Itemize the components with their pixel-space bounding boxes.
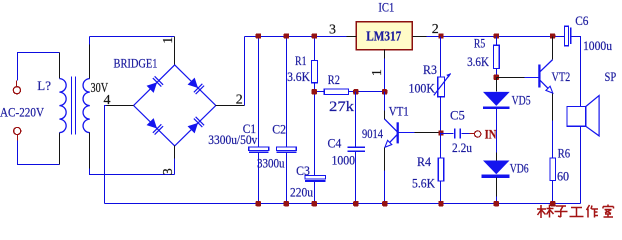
resistor R6 body [550,158,556,181]
svg-text:2: 2 [236,92,243,107]
transistor VT1 symbol [385,119,398,147]
svg-text:R6: R6 [558,145,571,160]
transformer core [72,77,76,135]
resistor R2 left lead [314,91,325,93]
watermark 作 [587,205,599,218]
transistor VT1 collector pin [384,111,386,120]
speaker SP [567,96,599,136]
capacitor C5 plates [455,128,461,138]
svg-text:BRIDGE1: BRIDGE1 [114,56,158,71]
bridge pin 1 [174,37,176,65]
wire ADJ down [384,59,386,92]
svg-text:C5: C5 [450,108,465,123]
diode VD5 top pin [496,78,498,92]
svg-text:R1: R1 [295,53,307,68]
svg-text:100K: 100K [409,81,436,96]
diode bridge top-left [146,76,163,93]
wire C6 to speaker [572,37,581,91]
IC1 pin 3 [347,36,357,38]
svg-text:VT1: VT1 [389,104,409,119]
watermark 工 [570,208,584,217]
capacitor C2 bottom lead [286,153,288,204]
diode bridge bottom-right [187,117,204,134]
node ground R6 [550,201,555,206]
svg-text:3.6K: 3.6K [287,69,310,84]
capacitor C3 plates [305,176,325,182]
resistor R1 top lead [314,37,316,61]
svg-text:1: 1 [161,37,176,44]
terminal AC top [13,87,20,94]
diode bridge top-right [187,77,204,94]
svg-text:3300u: 3300u [257,156,285,171]
IC1 pin 2 [413,36,427,38]
svg-text:3300u/50v: 3300u/50v [208,132,257,147]
node top rail C1 [256,33,261,38]
diode bridge bottom-left [146,117,163,134]
capacitor C4 bottom lead [355,152,357,204]
transistor VT1 emitter pin [384,148,386,171]
transistor VT2 emitter pin [552,94,554,121]
watermark 子 [555,206,568,217]
svg-text:VD5: VD5 [512,93,531,108]
bridge pin 3 [174,146,176,159]
node top rail VT2 collector [550,33,555,38]
transformer secondary bottom pin [89,133,91,169]
resistor R5 body [494,45,500,68]
svg-text:3: 3 [161,168,176,175]
diode VD6 bottom pin [496,178,498,197]
svg-text:R5: R5 [474,36,485,51]
wire R1 to C3 [314,92,316,176]
terminal AC bottom [14,127,21,134]
svg-text:3: 3 [329,22,336,37]
svg-text:R4: R4 [417,154,431,169]
capacitor C4 plates [348,147,365,151]
svg-text:1: 1 [370,69,385,76]
transformer L? primary top pin [59,53,61,79]
node R2 left [312,89,317,94]
svg-text:SP: SP [605,69,617,84]
transformer secondary top pin [89,45,91,79]
node ground C1 [256,201,261,206]
bridge pin 2 [216,105,245,107]
svg-text:AC-220V: AC-220V [0,105,45,120]
rheostat R3 top lead [440,37,442,77]
node ground C3 [312,201,317,206]
capacitor C4 top lead [355,92,357,147]
capacitor C5 left lead [441,133,454,135]
node ADJ R2 [382,89,387,94]
svg-text:1000: 1000 [332,153,356,168]
resistor R2 right lead [349,91,356,93]
transistor VT2 symbol [539,60,552,94]
svg-text:220u: 220u [290,184,313,199]
rheostat R3 bottom lead [440,97,442,133]
node top rail R5 [494,33,499,38]
terminal AC top stub [16,81,18,87]
svg-text:VT2: VT2 [552,69,571,84]
diode VD6 [482,161,510,178]
resistor R6 bottom lead [552,181,554,204]
watermark 室 [603,205,614,218]
svg-text:27k: 27k [329,99,355,115]
bridge pin 4 [107,105,134,107]
svg-text:C3: C3 [296,163,310,178]
svg-text:C6: C6 [575,13,589,28]
capacitor C6 plates [565,26,571,46]
transformer L? primary winding [59,79,66,133]
svg-text:C2: C2 [272,122,286,137]
svg-text:2.2u: 2.2u [452,140,472,155]
wire VT2 emitter to R6 [552,121,554,158]
svg-text:L?: L? [37,78,51,93]
svg-text:LM317: LM317 [366,28,401,43]
node top rail C2 [284,33,289,38]
wire R5 node to VT2 base [497,77,525,79]
wire AC loop bottom [18,141,60,165]
svg-text:3.6K: 3.6K [467,54,489,69]
wire speaker to ground [580,141,582,204]
capacitor C1 top lead [258,37,260,147]
resistor R4 body [438,158,444,181]
transistor VT1 base pin [398,132,415,134]
node ground R4 [438,201,443,206]
capacitor C1 bottom lead [258,153,260,204]
transistor VT2 base pin [525,77,539,79]
speaker SP bottom pin [580,126,582,140]
wire bottom ground rail [105,203,581,205]
wire VD6 to ground [496,197,498,204]
watermark 林 [537,205,554,219]
capacitor C5 right lead [462,133,470,135]
svg-text:C4: C4 [328,135,342,150]
node ground C4 [353,201,358,206]
resistor R1 bottom lead [314,83,316,92]
wire bridge pin 3 down [174,159,176,175]
node ground VT1 emitter [382,201,387,206]
svg-text:9014: 9014 [362,126,383,141]
transistor VT1 collector wire [384,92,386,111]
wire top rail [245,36,565,38]
transformer L? secondary winding [83,79,90,133]
resistor R5 top lead [496,37,498,46]
terminal AC bottom stub [17,135,19,141]
node top rail R1 [312,33,317,38]
svg-text:R2: R2 [328,72,340,87]
wire riser bridge pin2 to top rail [244,37,246,106]
wire R2 to ADJ [356,91,385,93]
IC1 pin 1 [384,50,386,59]
svg-text:5.6K: 5.6K [412,176,436,191]
wire AC loop top [18,53,60,81]
wire VD5 to VD6 [496,109,498,153]
resistor R1 body [312,61,318,83]
node ground C2 [284,201,289,206]
wire bridge pin 4 to ground rail [105,106,107,204]
svg-text:IN: IN [485,127,497,142]
node ground VD6 [494,201,499,206]
diode VD5 [483,92,510,109]
transistor VT2 collector pin [552,37,554,60]
node R5 VD5 VT2 base [494,75,499,80]
node top rail R3 [438,33,443,38]
svg-text:R3: R3 [423,62,437,77]
wire secondary top to bridge pin1 [90,37,175,45]
svg-text:1000u: 1000u [583,38,612,53]
port IN stub [470,133,475,135]
svg-text:VD6: VD6 [510,160,529,175]
diode VD6 top pin [496,153,498,161]
wire secondary bottom to bridge pin3 [90,169,175,175]
resistor R5 bottom lead [496,69,498,78]
capacitor C2 top lead [286,37,288,147]
capacitor C1 plates [249,147,269,152]
svg-text:60: 60 [557,168,569,183]
capacitor C2 plates [276,147,296,152]
node R2 right C4 [353,89,358,94]
svg-text:IC1: IC1 [378,0,394,14]
svg-text:2: 2 [432,22,439,37]
speaker SP top pin [580,91,582,107]
rheostat R3 body [434,73,451,97]
wire VT1 emitter to ground [384,171,386,204]
resistor R4 top lead [440,133,442,159]
transformer L? primary bottom pin [59,133,61,165]
bridge BRIDGE1 diamond [134,65,216,146]
resistor R4 bottom lead [440,181,442,204]
resistor R2 body [324,89,348,95]
wire VT1 base to R3 R4 node [415,132,441,134]
node VT1 base R3 R4 C5 [438,130,443,135]
capacitor C3 bottom lead [314,182,316,204]
op-amp regulator IC1 LM317 box [356,22,412,50]
port IN terminal [475,131,481,137]
